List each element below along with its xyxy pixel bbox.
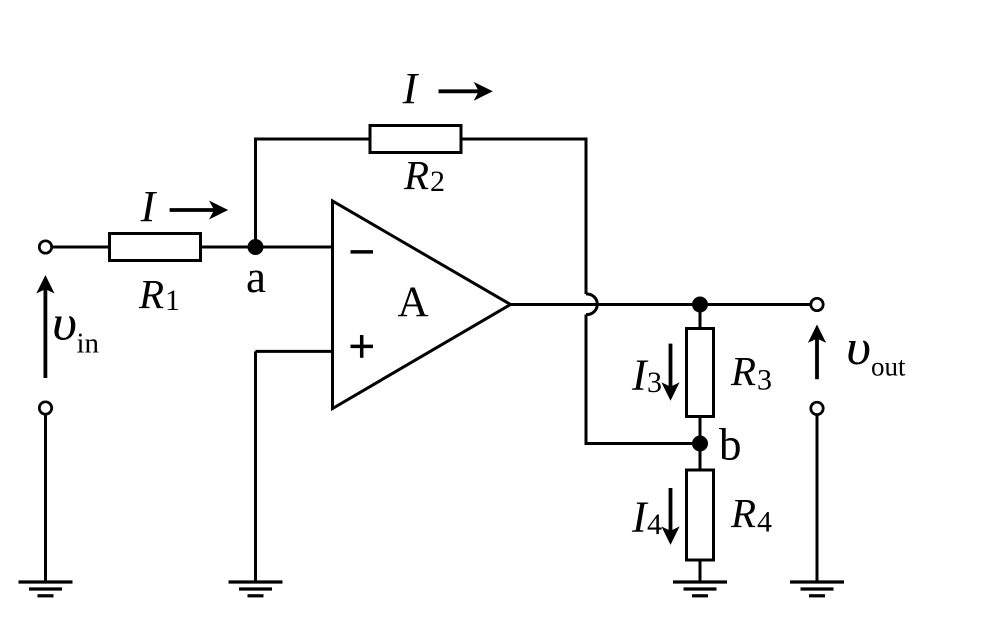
wire R3 to node b — [699, 416, 702, 445]
terminal circle vin- — [39, 402, 51, 414]
svg-text:A: A — [397, 279, 428, 326]
terminal circle vin+ — [39, 241, 51, 253]
svg-text:3: 3 — [647, 366, 662, 399]
svg-text:2: 2 — [430, 165, 445, 198]
svg-text:υ: υ — [846, 319, 871, 375]
wire right vertical continues to b level — [585, 315, 588, 446]
wire to node b — [586, 442, 700, 445]
ground (vout) — [790, 582, 844, 596]
op-amp minus sign — [351, 250, 374, 254]
arrow vout up — [809, 326, 825, 379]
svg-text:I: I — [402, 64, 420, 113]
svg-text:R: R — [730, 348, 756, 394]
label R1 — [138, 271, 180, 317]
terminal circle vout+ — [811, 298, 823, 310]
op-amp A — [333, 201, 511, 409]
terminal circle vout- — [811, 402, 823, 414]
wire right vertical down from R2 — [585, 139, 588, 294]
wire node b to R4 — [699, 444, 702, 471]
ground (R4) — [673, 582, 727, 596]
svg-text:b: b — [719, 420, 742, 470]
arrow I right (above R1) — [170, 202, 227, 218]
label R2 — [403, 152, 445, 198]
wire R4 to ground — [699, 560, 702, 582]
svg-text:υ: υ — [52, 295, 77, 351]
wire R1 to op-amp minus input — [200, 246, 333, 249]
arrow I4 down — [663, 488, 679, 544]
svg-text:R: R — [138, 271, 164, 317]
svg-text:3: 3 — [757, 364, 772, 397]
label I4 — [631, 493, 662, 542]
arrow I right (above R2) — [439, 83, 492, 99]
wire hop over output — [586, 294, 597, 315]
svg-text:4: 4 — [647, 508, 662, 541]
svg-text:4: 4 — [757, 506, 772, 539]
arrow vin up — [38, 276, 54, 378]
wire vin top terminal to R1 — [52, 246, 110, 249]
arrow I3 down — [663, 344, 679, 400]
label I3 — [631, 351, 662, 400]
svg-text:R: R — [730, 490, 756, 536]
wire plus input — [256, 350, 334, 353]
svg-text:out: out — [871, 352, 906, 382]
resistor R1 — [110, 234, 201, 261]
wire feedback left segment — [254, 138, 371, 141]
wire vin- to ground — [44, 414, 47, 582]
svg-text:in: in — [77, 328, 100, 360]
svg-text:I: I — [140, 182, 158, 231]
resistor R2 — [370, 126, 461, 153]
wire plus input down to ground — [254, 351, 257, 582]
svg-text:R: R — [403, 152, 429, 198]
ground (op-amp plus) — [229, 582, 283, 596]
wire op-amp output — [509, 303, 811, 306]
label R3 — [730, 348, 772, 397]
wire vout- to ground — [816, 415, 819, 583]
wire feedback right segment — [460, 138, 588, 141]
node b junction dot — [692, 436, 708, 452]
label vin — [52, 295, 100, 360]
resistor R4 — [687, 470, 714, 560]
svg-text:a: a — [246, 252, 266, 302]
node output junction dot — [692, 297, 708, 313]
svg-text:1: 1 — [165, 284, 180, 317]
node a junction dot — [248, 239, 264, 255]
op-amp plus sign — [351, 335, 374, 358]
wire node a up to feedback — [254, 139, 257, 247]
ground (vin) — [19, 582, 73, 596]
label R4 — [730, 490, 772, 539]
resistor R3 — [687, 329, 714, 417]
label vout — [846, 319, 906, 382]
wire output node down to R3 — [699, 305, 702, 329]
